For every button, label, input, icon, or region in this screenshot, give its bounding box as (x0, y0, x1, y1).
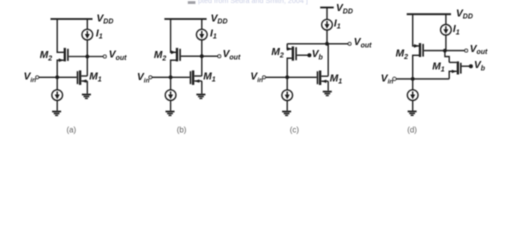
svg-text:(c): (c) (290, 125, 300, 134)
svg-text:(d): (d) (407, 125, 417, 134)
svg-text:pted from Sedra and Smith, 200: pted from Sedra and Smith, 2004 ] (198, 0, 308, 5)
svg-text:(a): (a) (66, 125, 76, 134)
svg-text:(b): (b) (177, 125, 187, 134)
